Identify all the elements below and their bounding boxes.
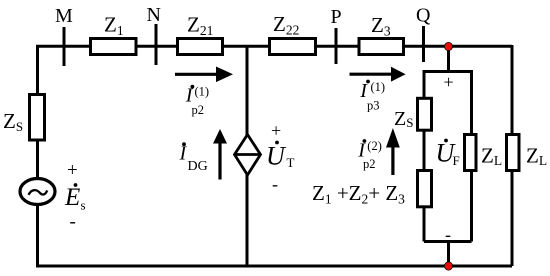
resistor Z1 <box>91 39 137 55</box>
svg-text:-: - <box>445 225 451 245</box>
resistor Z21 <box>178 39 223 55</box>
svg-text:M: M <box>55 5 73 27</box>
resistor Z22 <box>270 39 316 55</box>
svg-text:F: F <box>453 153 460 168</box>
resistor Z3 <box>359 39 404 55</box>
wire bottom rail <box>36 265 512 268</box>
svg-text:I: I <box>179 143 188 165</box>
node Q junction dot top (red) <box>444 42 452 50</box>
wire inner loop left branch middle <box>423 129 426 170</box>
sine symbol inside source <box>29 190 48 195</box>
resistor ZL2 <box>507 135 520 171</box>
node N tick <box>155 24 158 65</box>
svg-text:(1): (1) <box>371 80 386 94</box>
svg-text:s: s <box>81 198 86 213</box>
svg-text:+: + <box>67 160 78 181</box>
wire left vertical lower <box>36 140 39 180</box>
wire bottom stub to rail <box>447 242 450 267</box>
arrow current IDG (up) <box>218 142 221 180</box>
svg-text:-: - <box>70 212 76 233</box>
resistor ZS right branch <box>418 98 432 130</box>
wire right outer vertical upper <box>511 45 514 134</box>
wire inner loop left branch lower <box>423 207 426 242</box>
wire left vertical to bottom rail <box>36 204 39 266</box>
node P tick <box>335 28 338 64</box>
svg-text:Q: Q <box>416 5 431 27</box>
wire left vertical <box>36 45 39 94</box>
svg-text:DG: DG <box>188 159 208 174</box>
wire inner loop right branch lower <box>470 171 473 242</box>
diamond horizontal chord <box>235 153 261 156</box>
dependent source UT (diamond) <box>235 135 261 176</box>
source Es (ac source) <box>20 179 55 205</box>
svg-text:-: - <box>272 174 278 194</box>
wire inner loop top bar <box>424 70 472 72</box>
wire middle vertical lower <box>246 174 249 266</box>
svg-text:+: + <box>444 72 454 92</box>
node M tick <box>63 27 66 66</box>
svg-text:p2: p2 <box>363 157 376 171</box>
node Q tick <box>422 26 425 62</box>
wire inner loop bottom bar <box>424 240 472 243</box>
svg-text:(2): (2) <box>367 139 382 153</box>
resistor ZL1 <box>465 135 477 171</box>
arrow current Ip2(2) (up) <box>391 147 394 176</box>
arrow current Ip2(1) <box>175 73 217 76</box>
wire inner loop left branch upper <box>423 70 426 98</box>
wire inner loop right branch upper <box>470 72 473 135</box>
svg-text:+: + <box>271 121 281 141</box>
svg-text:p2: p2 <box>192 103 205 117</box>
node junction dot bottom (red) <box>444 262 452 270</box>
resistor ZS source impedance left <box>30 95 45 141</box>
wire top rail <box>36 45 512 48</box>
svg-text:E: E <box>64 184 80 211</box>
wire node Q stub down <box>447 46 450 71</box>
svg-text:T: T <box>287 155 295 170</box>
svg-text:(1): (1) <box>195 85 210 99</box>
wire middle vertical upper <box>246 46 249 136</box>
arrow current Ip3(1) <box>350 73 393 76</box>
svg-text:U: U <box>266 142 287 171</box>
svg-text:p3: p3 <box>367 99 380 113</box>
resistor Z123 box <box>418 171 432 207</box>
svg-text:P: P <box>331 6 342 28</box>
svg-text:N: N <box>147 4 161 26</box>
wire right outer vertical lower <box>511 171 514 266</box>
